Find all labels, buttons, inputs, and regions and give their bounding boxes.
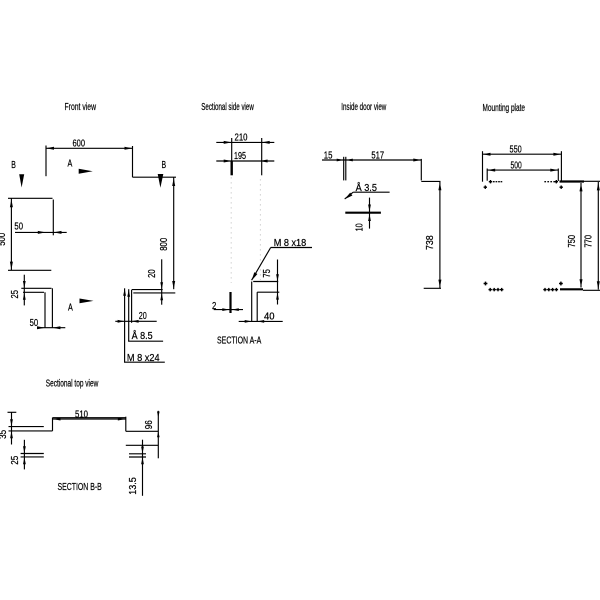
svg-text:20: 20 <box>139 311 147 322</box>
svg-text:Inside door view: Inside door view <box>341 102 386 113</box>
svg-text:210: 210 <box>235 132 248 143</box>
svg-text:600: 600 <box>73 138 86 149</box>
svg-text:M 8 x18: M 8 x18 <box>274 238 307 249</box>
svg-text:A: A <box>68 159 73 170</box>
svg-text:A: A <box>68 302 73 313</box>
svg-text:M 8 x24: M 8 x24 <box>127 353 160 364</box>
svg-text:2: 2 <box>212 301 217 312</box>
svg-text:75: 75 <box>262 269 273 278</box>
svg-text:13.5: 13.5 <box>128 477 139 495</box>
svg-text:550: 550 <box>510 145 523 156</box>
svg-text:50: 50 <box>30 318 39 329</box>
svg-text:20: 20 <box>147 269 158 278</box>
svg-text:750: 750 <box>567 235 578 248</box>
svg-text:Sectional top view: Sectional top view <box>46 378 99 389</box>
svg-text:10: 10 <box>354 223 365 231</box>
svg-text:500: 500 <box>511 160 522 171</box>
svg-text:B: B <box>162 160 167 171</box>
svg-text:B: B <box>11 160 16 171</box>
svg-text:Mounting plate: Mounting plate <box>483 103 526 114</box>
svg-text:35: 35 <box>0 430 9 439</box>
svg-text:Å 8.5: Å 8.5 <box>132 329 153 342</box>
svg-text:25: 25 <box>10 455 21 464</box>
svg-text:517: 517 <box>371 151 384 162</box>
svg-text:800: 800 <box>159 237 170 250</box>
svg-text:770: 770 <box>584 235 595 248</box>
svg-text:96: 96 <box>144 420 155 429</box>
svg-text:SECTION A-A: SECTION A-A <box>217 336 262 347</box>
svg-text:500: 500 <box>0 232 8 245</box>
svg-text:510: 510 <box>75 410 88 421</box>
svg-text:SECTION B-B: SECTION B-B <box>58 482 103 493</box>
svg-text:40: 40 <box>264 311 275 322</box>
svg-text:25: 25 <box>10 290 21 299</box>
svg-text:Å 3.5: Å 3.5 <box>356 181 378 194</box>
svg-text:50: 50 <box>14 222 23 233</box>
svg-text:Front view: Front view <box>65 102 97 113</box>
svg-text:738: 738 <box>425 235 436 250</box>
svg-text:15: 15 <box>324 151 333 162</box>
svg-text:Sectional side view: Sectional side view <box>201 102 254 113</box>
svg-text:195: 195 <box>234 151 246 162</box>
